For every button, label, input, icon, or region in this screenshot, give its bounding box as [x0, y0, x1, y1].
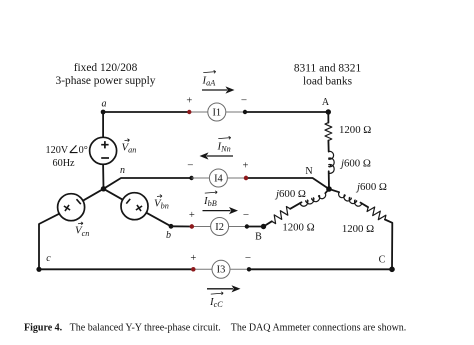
inductor j600 ohm (branch A) [329, 151, 334, 173]
svg-text:j600 Ω: j600 Ω [339, 158, 371, 170]
svg-text:+: + [243, 161, 249, 172]
node b [169, 224, 174, 229]
resistor 1200 ohm (branch A) [325, 123, 332, 141]
+ terminal red dot (I3, topmost) [191, 267, 195, 271]
wire source vbn to node b [146, 213, 171, 227]
thin lead out of ammeter I2 [229, 226, 247, 228]
svg-text:1200 Ω: 1200 Ω [282, 222, 314, 234]
- terminal black dot (I1) [243, 110, 247, 114]
thin lead into ammeter I2 [192, 226, 211, 228]
svg-text:j600 Ω: j600 Ω [274, 188, 306, 200]
thin lead out of ammeter I3 [230, 268, 249, 270]
wire A down to resistor [327, 112, 329, 123]
svg-text:fixed 120/208: fixed 120/208 [74, 62, 138, 74]
resistor 1200 ohm (branch C) [367, 207, 386, 220]
svg-text:b: b [166, 230, 171, 241]
central junction node [101, 186, 106, 191]
thin lead into ammeter I3 [193, 268, 212, 270]
svg-text:A: A [322, 97, 330, 108]
svg-text:1200 Ω: 1200 Ω [342, 223, 374, 235]
svg-text:load banks: load banks [303, 76, 353, 88]
svg-text:−: − [243, 209, 249, 221]
svg-text:C: C [379, 255, 386, 266]
svg-text:−: − [241, 94, 247, 106]
svg-text:Vcn: Vcn [75, 225, 89, 238]
svg-text:INn: INn [217, 141, 231, 154]
node a [101, 110, 106, 115]
ammeter I4 [209, 169, 227, 187]
+ terminal red dot (I4, topmost) [244, 176, 248, 180]
+ terminal red dot (I2, topmost) [190, 224, 194, 228]
node B [261, 224, 266, 229]
thin lead into ammeter I1 [191, 111, 207, 113]
ammeter I2 [211, 218, 229, 236]
svg-text:Vbn: Vbn [154, 197, 169, 210]
thin lead out of ammeter I1 [226, 111, 245, 113]
svg-text:IbB: IbB [203, 195, 217, 208]
+ terminal red dot (I3) [191, 267, 195, 271]
svg-text:120V: 120V [46, 145, 69, 156]
svg-text:a: a [102, 99, 107, 110]
wire I1 to node A [245, 111, 328, 113]
- terminal black dot (I2) [245, 224, 249, 228]
svg-text:I4: I4 [214, 173, 223, 184]
wire inductor to star point N [328, 171, 330, 189]
wire I4 to star point N [246, 178, 329, 189]
- terminal black dot (I4) [189, 176, 193, 180]
inductor j600 ohm (branch B) [325, 189, 329, 193]
svg-text:3-phase power supply: 3-phase power supply [56, 75, 156, 87]
+ terminal red dot (I4) [244, 176, 248, 180]
wire inductor to resistor (branch B) [290, 202, 301, 209]
wire source vcn to corner to node c [39, 214, 59, 270]
node C [389, 267, 395, 273]
wire neutral n: junction up to row [104, 178, 192, 189]
node A [326, 109, 331, 114]
wire source van to junction n [102, 164, 104, 189]
wire a to I1 + terminal [103, 111, 189, 113]
node c [36, 267, 41, 272]
wire resistor to corner and down to node C [385, 220, 392, 270]
wire inductor to resistor (branch C) [361, 203, 369, 208]
wire c to I3 + terminal [39, 268, 193, 270]
svg-text:I1: I1 [212, 107, 221, 118]
inductor j600 ohm (branch C) [329, 189, 339, 192]
wire b to I2 + terminal [171, 225, 192, 227]
+ terminal red dot (I1) [187, 110, 191, 114]
wire junction n to source vcn [83, 189, 104, 201]
svg-text:IaA: IaA [202, 75, 217, 88]
svg-text:N: N [305, 166, 312, 177]
svg-text:8311 and 8321: 8311 and 8321 [294, 63, 362, 75]
wire I3 to node C [249, 268, 392, 270]
resistor 1200 ohm (branch B) [272, 207, 290, 224]
svg-text:I2: I2 [215, 222, 224, 233]
svg-text:n: n [120, 165, 125, 176]
angle symbol (drawn) [70, 145, 78, 152]
wire a down to source van [102, 112, 104, 137]
voltage source Van [90, 137, 117, 164]
ammeter I1 [208, 103, 226, 121]
thin lead out of ammeter I4 [227, 177, 246, 179]
svg-text:+: + [190, 253, 196, 264]
ammeter I3 [212, 260, 230, 278]
svg-text:IcC: IcC [209, 296, 223, 309]
svg-text:+: + [189, 210, 195, 221]
svg-text:1200 Ω: 1200 Ω [339, 124, 371, 136]
- terminal black dot (I3) [247, 267, 251, 271]
svg-text:Figure 4. The balanced Y-Y t: Figure 4. The balanced Y-Y three-phase c… [24, 323, 406, 334]
thin lead into ammeter I4 [192, 177, 210, 179]
svg-text:c: c [46, 253, 51, 264]
wire I2 to node B [247, 226, 264, 228]
svg-text:−: − [245, 252, 251, 264]
svg-text:I3: I3 [217, 265, 226, 276]
wire resistor to inductor (branch A) [327, 141, 329, 152]
svg-text:−: − [187, 159, 193, 171]
+ terminal red dot (I2) [190, 224, 194, 228]
svg-text:60Hz: 60Hz [53, 158, 76, 169]
voltage source Vcn [58, 194, 85, 221]
svg-text:B: B [255, 232, 262, 243]
svg-text:Van: Van [122, 141, 137, 154]
svg-text:+: + [186, 96, 192, 107]
svg-text:0°: 0° [79, 145, 88, 156]
star point N junction [326, 186, 332, 192]
svg-text:j600 Ω: j600 Ω [355, 181, 387, 193]
wire junction n to source vbn [104, 189, 123, 200]
wire resistor to node B [264, 221, 272, 226]
voltage source Vbn [121, 193, 148, 220]
